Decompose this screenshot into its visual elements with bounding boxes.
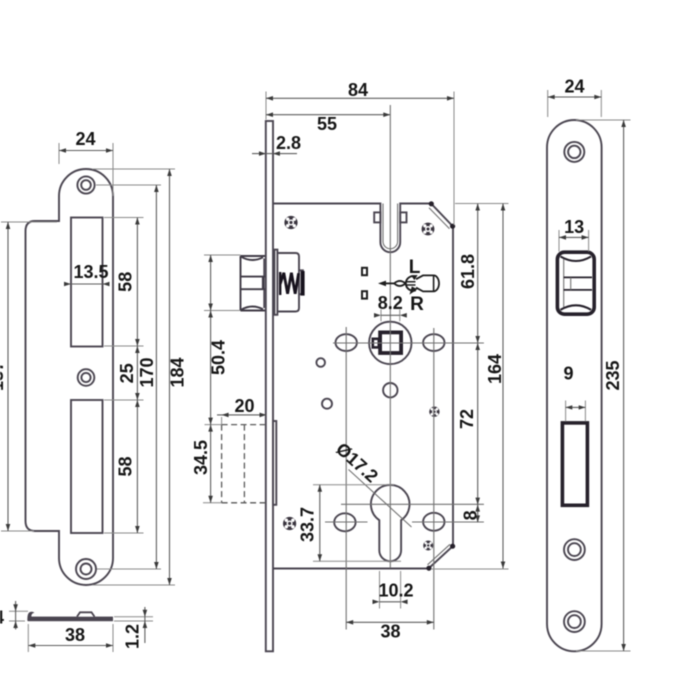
- svg-text:24: 24: [564, 77, 584, 97]
- svg-text:55: 55: [317, 114, 337, 134]
- svg-text:Ø17.2: Ø17.2: [332, 439, 382, 487]
- svg-text:R: R: [410, 294, 424, 315]
- svg-text:184: 184: [168, 357, 188, 387]
- svg-text:20: 20: [234, 396, 254, 416]
- svg-text:170: 170: [137, 357, 157, 387]
- svg-text:8: 8: [461, 510, 481, 520]
- svg-text:72: 72: [457, 409, 477, 429]
- svg-text:L: L: [409, 257, 421, 278]
- svg-text:25: 25: [117, 363, 137, 383]
- svg-text:10.2: 10.2: [378, 581, 413, 601]
- svg-text:24: 24: [75, 129, 95, 149]
- svg-text:38: 38: [65, 625, 85, 645]
- svg-text:84: 84: [348, 80, 368, 100]
- svg-text:13: 13: [564, 217, 584, 237]
- svg-text:235: 235: [603, 360, 623, 390]
- svg-text:2.8: 2.8: [276, 133, 301, 153]
- svg-text:33.7: 33.7: [298, 507, 318, 542]
- svg-text:50.4: 50.4: [209, 340, 229, 375]
- svg-text:13.5: 13.5: [73, 262, 108, 282]
- svg-text:1.2: 1.2: [123, 624, 143, 649]
- svg-text:9: 9: [563, 364, 573, 384]
- svg-text:38: 38: [380, 622, 400, 642]
- svg-text:58: 58: [116, 456, 136, 476]
- svg-text:164: 164: [485, 354, 505, 384]
- svg-text:137: 137: [0, 361, 7, 391]
- svg-text:61.8: 61.8: [458, 254, 478, 289]
- svg-text:8.2: 8.2: [378, 293, 403, 313]
- svg-text:58: 58: [116, 272, 136, 292]
- svg-text:34.5: 34.5: [191, 440, 211, 475]
- svg-text:4: 4: [0, 608, 4, 628]
